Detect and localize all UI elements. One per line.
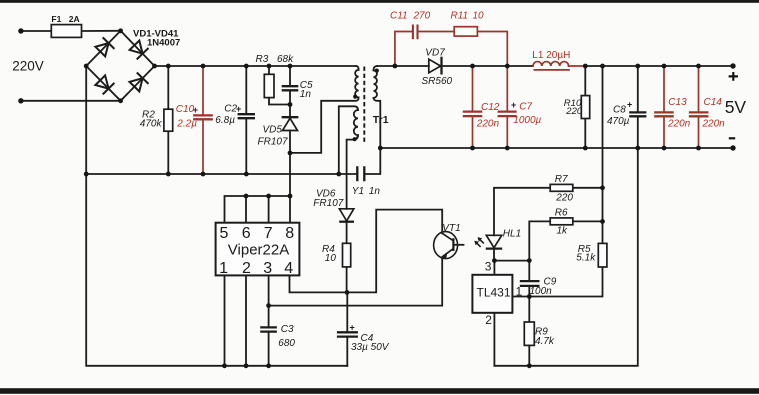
svg-text:Y1: Y1 <box>352 186 364 197</box>
svg-text:1k: 1k <box>557 226 569 237</box>
svg-text:FR107: FR107 <box>258 137 288 148</box>
svg-text:TL431: TL431 <box>477 286 511 300</box>
svg-text:L1 20µH: L1 20µH <box>532 50 570 61</box>
svg-text:5.1k: 5.1k <box>576 252 596 263</box>
svg-text:SR560: SR560 <box>422 76 453 87</box>
svg-text:+: + <box>236 104 241 114</box>
svg-text:+: + <box>627 99 632 109</box>
svg-text:1n: 1n <box>369 186 381 197</box>
svg-text:1n: 1n <box>300 89 312 100</box>
svg-text:220: 220 <box>565 106 583 117</box>
svg-text:C11: C11 <box>390 10 408 21</box>
svg-text:220V: 220V <box>12 59 44 74</box>
svg-text:33µ 50V: 33µ 50V <box>351 342 390 353</box>
svg-text:R7: R7 <box>555 174 568 185</box>
svg-text:4: 4 <box>284 260 293 277</box>
svg-text:FR107: FR107 <box>313 198 343 209</box>
svg-text:1N4007: 1N4007 <box>147 38 180 49</box>
svg-text:+: + <box>511 100 516 110</box>
svg-text:10: 10 <box>473 10 485 21</box>
svg-text:470µ: 470µ <box>607 116 630 127</box>
svg-text:1: 1 <box>219 260 228 277</box>
svg-text:5V: 5V <box>725 97 747 117</box>
svg-text:2A: 2A <box>69 14 80 24</box>
svg-text:C7: C7 <box>519 101 532 112</box>
svg-text:220n: 220n <box>702 118 726 129</box>
svg-text:270: 270 <box>413 10 431 21</box>
svg-text:2.2µ: 2.2µ <box>176 119 197 130</box>
svg-text:470k: 470k <box>140 119 163 130</box>
svg-text:220n: 220n <box>476 118 500 129</box>
svg-text:6: 6 <box>242 225 251 242</box>
svg-text:3: 3 <box>263 260 272 277</box>
svg-text:VT1: VT1 <box>442 223 460 234</box>
svg-text:1: 1 <box>516 285 523 299</box>
svg-text:3: 3 <box>485 260 492 274</box>
svg-text:+: + <box>350 322 355 332</box>
svg-text:8: 8 <box>285 225 294 242</box>
svg-text:VD7: VD7 <box>425 48 445 59</box>
svg-text:220n: 220n <box>667 118 691 129</box>
svg-text:F1: F1 <box>51 14 61 24</box>
svg-text:C13: C13 <box>668 97 687 108</box>
svg-text:Viper22A: Viper22A <box>228 241 289 258</box>
svg-text:4.7k: 4.7k <box>535 336 555 347</box>
svg-text:VD5: VD5 <box>263 125 283 136</box>
svg-text:R3: R3 <box>256 54 269 65</box>
svg-text:6.8µ: 6.8µ <box>215 115 235 126</box>
svg-text:220: 220 <box>555 193 573 204</box>
svg-text:1000µ: 1000µ <box>513 115 541 126</box>
svg-text:2: 2 <box>485 313 492 327</box>
svg-text:C14: C14 <box>704 97 723 108</box>
svg-text:C12: C12 <box>481 102 500 113</box>
svg-text:C8: C8 <box>613 105 626 116</box>
svg-text:2: 2 <box>242 260 251 277</box>
svg-text:Tr1: Tr1 <box>373 114 389 126</box>
svg-text:+: + <box>193 105 198 115</box>
svg-text:HL1: HL1 <box>503 229 521 240</box>
svg-text:R11: R11 <box>451 10 469 21</box>
svg-text:68k: 68k <box>277 54 294 65</box>
svg-text:7: 7 <box>264 225 273 242</box>
svg-text:C3: C3 <box>281 324 294 335</box>
svg-text:C10: C10 <box>176 104 195 115</box>
svg-text:5: 5 <box>220 225 229 242</box>
svg-text:10: 10 <box>325 253 337 264</box>
svg-text:100n: 100n <box>530 286 553 297</box>
svg-text:680: 680 <box>278 338 295 349</box>
svg-text:R6: R6 <box>555 208 568 219</box>
